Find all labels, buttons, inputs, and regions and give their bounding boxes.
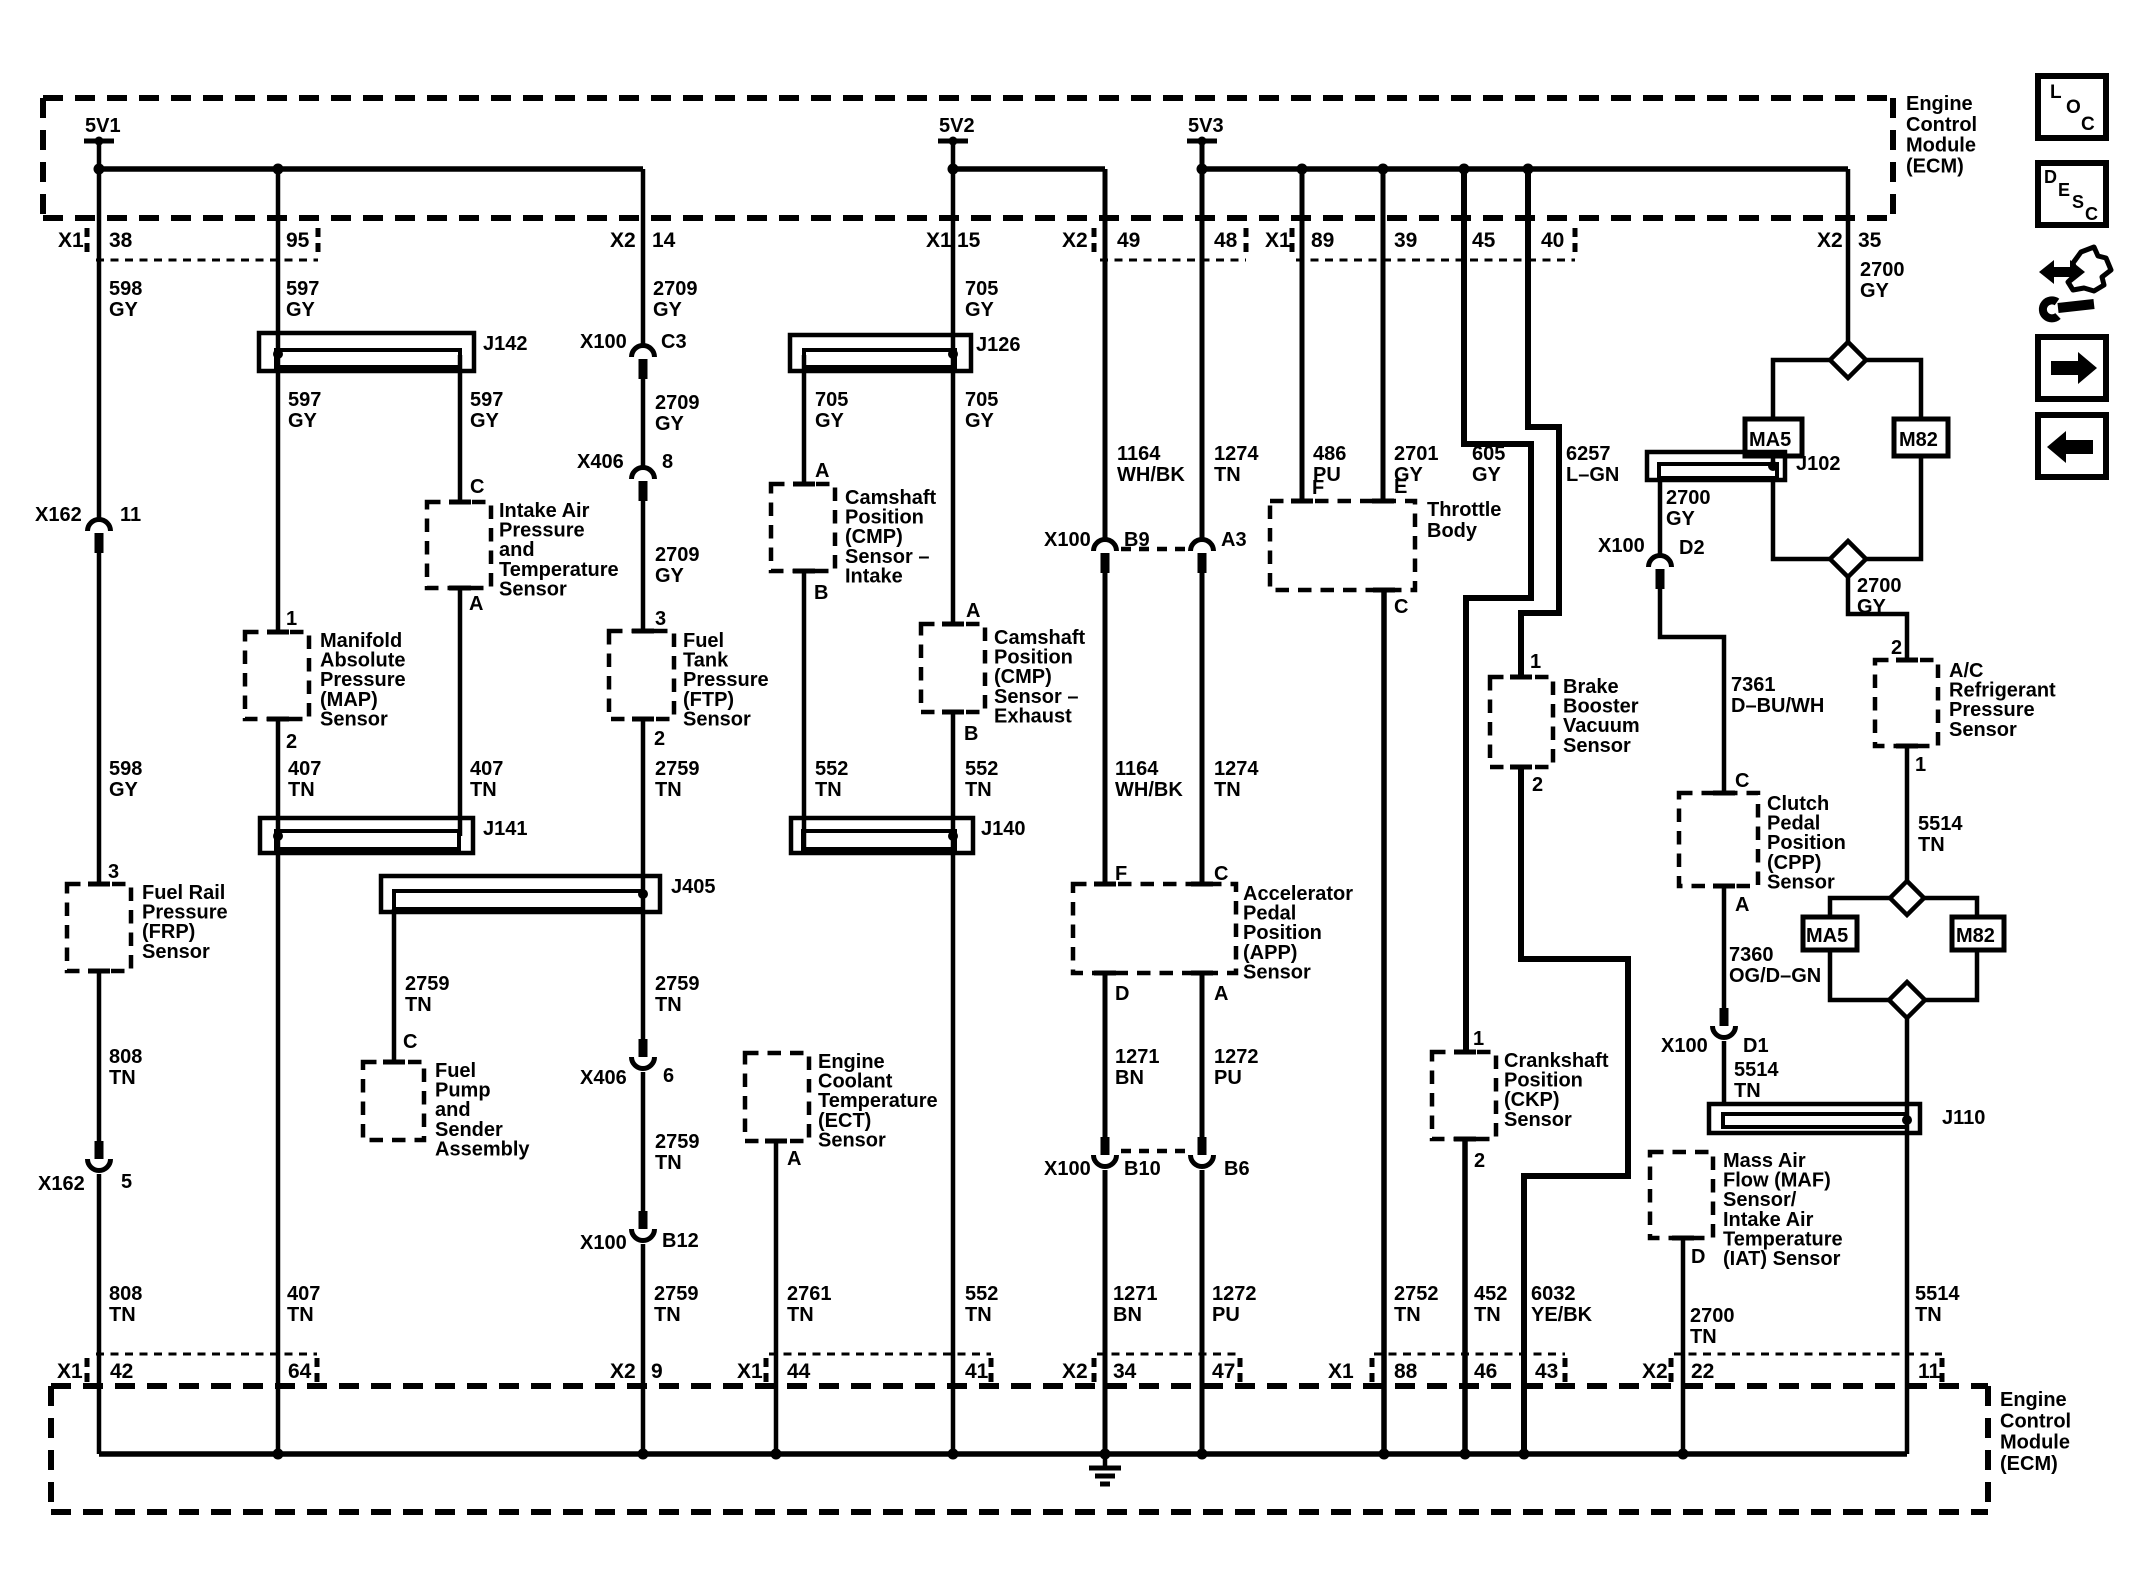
- label 6032 YE/BK: [1531, 1283, 1593, 1326]
- wire 598 GY X162-11 to FRP pin 3: [97, 553, 102, 884]
- svg-text:X100: X100: [580, 1232, 627, 1254]
- svg-text:O: O: [2066, 97, 2081, 118]
- svg-text:598: 598: [109, 758, 142, 780]
- svg-text:552: 552: [965, 1283, 998, 1305]
- label 1274 TN upper: [1214, 443, 1259, 486]
- wire splice 3 branch right to M82: [1924, 898, 1977, 917]
- svg-text:(IAT) Sensor: (IAT) Sensor: [1723, 1248, 1841, 1270]
- label 2761 TN: [787, 1283, 832, 1326]
- wire 552 TN CMP exhaust pin B through J140 to pin 41: [951, 712, 956, 1454]
- svg-text:5514: 5514: [1915, 1283, 1960, 1305]
- label 7361 D-BU/WH: [1731, 674, 1824, 717]
- splice diamond 3: [1890, 881, 1924, 915]
- wire 598 GY pin 38 to X162-11: [97, 141, 102, 518]
- svg-text:BN: BN: [1115, 1067, 1144, 1089]
- svg-text:6257: 6257: [1566, 443, 1611, 465]
- svg-text:GY: GY: [1860, 280, 1890, 302]
- splice diamond 4: [1889, 982, 1925, 1018]
- component Throttle Body: [1270, 499, 1501, 590]
- svg-text:X2: X2: [1817, 229, 1843, 252]
- label 2709 GY middle: [655, 392, 700, 435]
- svg-text:452: 452: [1474, 1283, 1507, 1305]
- wire 2709 GY X100-C3 to X406-8: [641, 379, 646, 466]
- label 2700 GY pin 35: [1860, 259, 1905, 302]
- wire M82 lower to splice diamond 4: [1925, 950, 1977, 1000]
- bottom connector row X1 (pins 42, 64): [57, 1354, 317, 1384]
- wire 2700 GY pin 35 to splice diamond: [1846, 169, 1851, 343]
- svg-text:E: E: [1394, 476, 1407, 498]
- label 452 TN: [1474, 1283, 1507, 1326]
- svg-text:1164: 1164: [1117, 443, 1161, 465]
- svg-text:E: E: [2058, 180, 2070, 200]
- tag MA5 lower: [1803, 917, 1857, 950]
- svg-text:M82: M82: [1956, 925, 1995, 947]
- label 1271 BN upper: [1115, 1046, 1160, 1089]
- svg-text:BN: BN: [1113, 1304, 1142, 1326]
- svg-text:35: 35: [1858, 229, 1882, 252]
- svg-text:L–GN: L–GN: [1566, 464, 1619, 486]
- wire 2759 TN FTP pin 2 through J405 to X406-6: [641, 719, 646, 1039]
- svg-text:5V1: 5V1: [85, 115, 121, 137]
- svg-text:407: 407: [470, 758, 503, 780]
- label 2759 TN below J405 left: [405, 973, 450, 1016]
- wire 6032 YE/BK BBV pin 2 to pin 43: [1521, 767, 1628, 1454]
- svg-text:5514: 5514: [1918, 813, 1963, 835]
- svg-text:38: 38: [109, 229, 133, 252]
- svg-text:D: D: [1691, 1246, 1705, 1268]
- label 7360 OG/D-GN: [1729, 944, 1821, 987]
- svg-text:34: 34: [1113, 1360, 1137, 1383]
- svg-text:2: 2: [1891, 637, 1902, 659]
- junction 5V3 bus dots: [1197, 164, 1534, 175]
- svg-text:2759: 2759: [654, 1283, 699, 1305]
- svg-text:1164: 1164: [1115, 758, 1159, 780]
- svg-text:D: D: [1115, 983, 1129, 1005]
- svg-text:WH/BK: WH/BK: [1115, 779, 1183, 801]
- svg-text:43: 43: [1535, 1360, 1558, 1383]
- svg-text:Sensor: Sensor: [1563, 735, 1631, 757]
- svg-text:GY: GY: [286, 299, 316, 321]
- icon box arrow left: [2038, 415, 2106, 477]
- svg-text:46: 46: [1474, 1360, 1497, 1383]
- svg-text:605: 605: [1472, 443, 1505, 465]
- ECM top label: [1906, 93, 1977, 177]
- svg-text:S: S: [2072, 192, 2084, 212]
- svg-text:1274: 1274: [1214, 443, 1259, 465]
- wire 1271 BN APP pin D to X100-B10: [1103, 973, 1108, 1137]
- svg-text:1274: 1274: [1214, 758, 1259, 780]
- svg-text:Body: Body: [1427, 520, 1478, 542]
- wire MA5 to J102: [1771, 456, 1776, 466]
- svg-text:D1: D1: [1743, 1035, 1769, 1057]
- svg-text:Sensor: Sensor: [499, 578, 567, 600]
- svg-text:B: B: [964, 723, 978, 745]
- svg-text:2709: 2709: [655, 544, 700, 566]
- svg-text:2: 2: [654, 728, 665, 750]
- junction J140 at col 953: [948, 831, 958, 841]
- svg-text:X1: X1: [1265, 229, 1291, 252]
- label 1164 WH/BK lower: [1115, 758, 1183, 801]
- svg-text:1272: 1272: [1214, 1046, 1259, 1068]
- splice pack J141: [260, 818, 528, 853]
- sensor FTP (Fuel Tank Pressure): [609, 630, 769, 730]
- svg-text:2759: 2759: [655, 758, 700, 780]
- svg-text:YE/BK: YE/BK: [1531, 1304, 1593, 1326]
- svg-text:TN: TN: [965, 1304, 992, 1326]
- splice diamond upper: [1830, 342, 1866, 378]
- wire 2752 TN Throttle Body pin C to pin 88: [1381, 590, 1387, 1454]
- svg-text:41: 41: [965, 1360, 989, 1383]
- svg-text:GY: GY: [965, 410, 995, 432]
- svg-text:597: 597: [470, 389, 503, 411]
- junction J110 at col 1907: [1902, 1115, 1912, 1125]
- svg-text:Sensor: Sensor: [1949, 719, 2017, 741]
- label 552 TN right: [965, 758, 998, 801]
- svg-text:TN: TN: [1214, 779, 1241, 801]
- svg-text:MA5: MA5: [1749, 429, 1791, 451]
- svg-text:GY: GY: [965, 299, 995, 321]
- ground symbol: [1089, 1454, 1121, 1484]
- label 6257 L-GN: [1566, 443, 1619, 486]
- connector X100 pin B6 in-line: [1191, 1137, 1250, 1180]
- svg-text:J142: J142: [483, 333, 528, 355]
- svg-text:2700: 2700: [1857, 575, 1902, 597]
- junction J405 at col 643: [638, 889, 648, 899]
- svg-text:1: 1: [1530, 651, 1541, 673]
- splice pack J126: [790, 334, 1021, 371]
- tag M82 upper: [1894, 419, 1948, 456]
- svg-text:3: 3: [108, 861, 119, 883]
- svg-text:11: 11: [120, 504, 141, 526]
- svg-text:Module: Module: [2000, 1432, 2070, 1454]
- svg-text:J102: J102: [1796, 453, 1841, 475]
- svg-text:X162: X162: [35, 504, 82, 526]
- svg-text:TN: TN: [654, 1304, 681, 1326]
- svg-text:5V3: 5V3: [1188, 115, 1224, 137]
- svg-text:X100: X100: [1661, 1035, 1708, 1057]
- svg-text:552: 552: [965, 758, 998, 780]
- sensor ECT (Engine Coolant Temperature): [745, 1051, 938, 1151]
- wire 2700 TN MAF pin D to pin 22: [1681, 1238, 1686, 1454]
- svg-text:M82: M82: [1899, 429, 1938, 451]
- svg-text:C: C: [1394, 596, 1408, 618]
- svg-text:Sensor: Sensor: [1504, 1109, 1572, 1131]
- label 407 TN col3: [470, 758, 503, 801]
- label 2759 TN below X406-6: [655, 1131, 700, 1174]
- wire J102 to splice diamond 2: [1773, 480, 1830, 559]
- wire 2759 TN J405 to Fuel Pump pin C: [392, 909, 397, 1062]
- label 2752 TN: [1394, 1283, 1439, 1326]
- svg-text:552: 552: [815, 758, 848, 780]
- top connector row X1 (pins 38, 95): [58, 228, 318, 260]
- svg-text:J405: J405: [671, 876, 716, 898]
- label 808 TN lower: [109, 1283, 142, 1326]
- svg-text:6032: 6032: [1531, 1283, 1576, 1305]
- label 2759 TN below J405 right: [655, 973, 700, 1016]
- wire 5V2 bus: [953, 166, 1105, 172]
- svg-text:Sensor: Sensor: [1767, 871, 1835, 893]
- splice pack J140: [791, 818, 1026, 853]
- junction 5V1 bus at col 99: [94, 164, 105, 175]
- svg-text:2700: 2700: [1860, 259, 1905, 281]
- svg-text:F: F: [1115, 863, 1127, 885]
- svg-text:2752: 2752: [1394, 1283, 1439, 1305]
- svg-text:TN: TN: [1394, 1304, 1421, 1326]
- svg-text:598: 598: [109, 278, 142, 300]
- svg-text:J110: J110: [1942, 1107, 1985, 1129]
- wire 5514 TN A/C pin 1 to splice diamond 3: [1905, 746, 1910, 882]
- label 1272 PU upper: [1214, 1046, 1259, 1089]
- connector X100 link B10-B6: [1121, 1149, 1186, 1154]
- svg-text:B6: B6: [1224, 1158, 1250, 1180]
- svg-text:597: 597: [288, 389, 321, 411]
- svg-text:15: 15: [957, 229, 981, 252]
- wire 5V1 bus: [99, 166, 643, 172]
- svg-text:8: 8: [662, 451, 673, 473]
- label 2700 GY below splice: [1857, 575, 1902, 618]
- wire 5514 TN X100-D1 to J110: [1722, 1041, 1727, 1104]
- connector X100 pin D1 in-line: [1661, 1008, 1769, 1057]
- wire 2700 GY J102 to X100-D2: [1658, 478, 1663, 554]
- svg-text:TN: TN: [655, 994, 682, 1016]
- svg-text:705: 705: [965, 389, 998, 411]
- wire 486 PU pin 89 to Throttle Body pin F: [1300, 169, 1305, 501]
- svg-text:Control: Control: [1906, 114, 1977, 136]
- sensor CPP (Clutch Pedal Position): [1679, 793, 1846, 893]
- svg-text:407: 407: [288, 758, 321, 780]
- svg-text:A: A: [1735, 894, 1749, 916]
- connector X100 pin B12 in-line: [580, 1211, 699, 1254]
- svg-text:GY: GY: [1472, 464, 1502, 486]
- svg-text:TN: TN: [109, 1304, 136, 1326]
- splice pack J102: [1647, 452, 1841, 480]
- svg-text:(ECM): (ECM): [1906, 155, 1964, 177]
- svg-text:PU: PU: [1212, 1304, 1240, 1326]
- svg-text:X162: X162: [38, 1173, 85, 1195]
- svg-text:40: 40: [1541, 229, 1564, 252]
- label 407 TN col2 lower: [287, 1283, 320, 1326]
- svg-text:Sensor: Sensor: [1243, 961, 1311, 983]
- svg-text:(ECM): (ECM): [2000, 1453, 2058, 1475]
- junction J142 at col 278: [273, 349, 283, 359]
- label 2709 GY upper: [653, 278, 698, 321]
- svg-text:Engine: Engine: [2000, 1389, 2067, 1411]
- svg-text:C: C: [2081, 114, 2095, 135]
- wire 407 TN MAP pin 2 through J141 to pin 64: [276, 719, 281, 1454]
- svg-text:OG/D–GN: OG/D–GN: [1729, 965, 1821, 987]
- power node 5V1: [84, 115, 121, 146]
- wire 1274 TN pin 48 to X100-A3: [1200, 141, 1205, 538]
- svg-text:1: 1: [1473, 1028, 1484, 1050]
- svg-text:X2: X2: [610, 229, 636, 252]
- label 2759 TN above J405: [655, 758, 700, 801]
- svg-text:95: 95: [286, 229, 310, 252]
- svg-text:Module: Module: [1906, 135, 1976, 157]
- connector X100 pin B9 in-line: [1044, 529, 1150, 573]
- connector X162 pin 11 in-line: [35, 504, 141, 553]
- sensor FRP (Fuel Rail Pressure): [67, 882, 228, 971]
- svg-text:11: 11: [1918, 1360, 1941, 1383]
- label 2701 GY: [1394, 443, 1439, 486]
- svg-text:TN: TN: [815, 779, 842, 801]
- svg-text:2761: 2761: [787, 1283, 832, 1305]
- label 486 PU: [1313, 443, 1346, 486]
- sensor CKP (Crankshaft Position): [1432, 1050, 1609, 1139]
- svg-text:B10: B10: [1124, 1158, 1161, 1180]
- sensor BBV (Brake Booster Vacuum): [1490, 676, 1640, 767]
- svg-text:5514: 5514: [1734, 1059, 1779, 1081]
- svg-text:J141: J141: [483, 818, 528, 840]
- svg-text:J126: J126: [976, 334, 1021, 356]
- wire 452 TN CKP pin 2 to pin 46: [1462, 1139, 1468, 1454]
- wire 407 TN Intake Air sensor pin A to J141: [458, 588, 463, 836]
- svg-text:808: 808: [109, 1046, 142, 1068]
- wire 2709 GY X406-8 to FTP pin 3: [641, 501, 646, 631]
- svg-text:808: 808: [109, 1283, 142, 1305]
- svg-text:Sensor: Sensor: [142, 941, 210, 963]
- bottom connector row X1 (pins 44, 41): [737, 1354, 991, 1384]
- wire ECM internal ground bus: [99, 1451, 1907, 1457]
- svg-text:5V2: 5V2: [939, 115, 975, 137]
- svg-text:WH/BK: WH/BK: [1117, 464, 1185, 486]
- svg-text:Sensor: Sensor: [683, 708, 751, 730]
- svg-text:X2: X2: [610, 1360, 636, 1383]
- label 1164 WH/BK upper: [1117, 443, 1185, 486]
- svg-text:TN: TN: [1918, 834, 1945, 856]
- svg-text:TN: TN: [655, 1152, 682, 1174]
- wire 597 GY pin 95 through J142 to MAP pin 1: [276, 169, 281, 632]
- wire M82 to splice diamond 2: [1866, 456, 1921, 559]
- tag M82 lower: [1952, 917, 2004, 950]
- svg-text:X1: X1: [58, 229, 84, 252]
- wire 1272 PU X100-B6 to pin 47: [1200, 1170, 1205, 1454]
- svg-text:2: 2: [286, 731, 297, 753]
- icon box arrow right: [2038, 337, 2106, 399]
- svg-text:1: 1: [1915, 754, 1926, 776]
- splice pack J110: [1709, 1104, 1985, 1133]
- sensor CMP exhaust (Camshaft Position): [921, 624, 1085, 727]
- label 552 TN bottom: [965, 1283, 998, 1326]
- svg-text:1: 1: [286, 608, 297, 630]
- svg-text:TN: TN: [470, 779, 497, 801]
- wire 2759 TN X406-6 to X100-B12: [641, 1072, 646, 1211]
- sensor Intake Air Pressure and Temperature: [427, 500, 619, 600]
- wire 2701 GY pin 39 to Throttle Body pin E: [1381, 169, 1386, 501]
- svg-text:B: B: [814, 582, 828, 604]
- connector X406 pin 6 in-line: [580, 1039, 674, 1089]
- label 705 GY below J126 left: [815, 389, 848, 432]
- svg-text:3: 3: [655, 608, 666, 630]
- svg-text:TN: TN: [405, 994, 432, 1016]
- wire 2761 TN ECT pin A to pin 44: [774, 1141, 779, 1454]
- icon repair (arrows and wrench): [2039, 247, 2111, 318]
- icon box LOC: [2038, 76, 2106, 138]
- svg-text:TN: TN: [288, 779, 315, 801]
- wire 2700 GY splice to A/C sensor pin 2: [1848, 577, 1907, 660]
- svg-text:PU: PU: [1214, 1067, 1242, 1089]
- svg-text:D2: D2: [1679, 537, 1705, 559]
- top connector row X2 (pins 49, 48): [1062, 228, 1246, 260]
- wire 705 GY pin 15 through J126 to CMP exhaust pin A: [951, 141, 956, 624]
- svg-text:X100: X100: [1598, 535, 1645, 557]
- component Fuel Pump and Sender Assembly: [363, 1060, 530, 1160]
- svg-text:1271: 1271: [1115, 1046, 1160, 1068]
- power node 5V2: [938, 115, 975, 146]
- svg-text:Exhaust: Exhaust: [994, 705, 1072, 727]
- label 597 GY upper: [286, 278, 319, 321]
- svg-text:A: A: [469, 593, 483, 615]
- svg-text:1272: 1272: [1212, 1283, 1257, 1305]
- svg-text:2701: 2701: [1394, 443, 1439, 465]
- svg-text:X1: X1: [926, 229, 952, 252]
- svg-text:GY: GY: [815, 410, 845, 432]
- svg-text:2: 2: [1474, 1150, 1485, 1172]
- wire 1272 PU APP pin A to X100-B6: [1200, 973, 1205, 1137]
- bottom connector row X2 (pins 34, 47): [1062, 1354, 1240, 1384]
- svg-text:A: A: [787, 1148, 801, 1170]
- svg-text:2: 2: [1532, 774, 1543, 796]
- wire splice 3 branch left to MA5: [1830, 898, 1890, 917]
- svg-text:TN: TN: [965, 779, 992, 801]
- sensor MAF/IAT (Mass Air Flow): [1650, 1150, 1843, 1270]
- label 407 TN col2 upper: [288, 758, 321, 801]
- label 1272 PU lower: [1212, 1283, 1257, 1326]
- wire 2709 GY pin 14 to X100-C3: [641, 169, 646, 344]
- svg-text:GY: GY: [288, 410, 318, 432]
- label 598 GY lower: [109, 758, 142, 801]
- connector X406 pin 8 in-line: [577, 451, 673, 501]
- svg-text:C: C: [470, 476, 484, 498]
- svg-text:GY: GY: [653, 299, 683, 321]
- connector X100 pin A3 in-line: [1191, 529, 1247, 573]
- svg-text:A: A: [1214, 983, 1228, 1005]
- power node 5V3: [1187, 115, 1224, 146]
- svg-text:6: 6: [663, 1065, 674, 1087]
- splice pack J142: [259, 333, 528, 371]
- wire 7360 OG/D-GN CPP pin A to X100-D1: [1722, 886, 1727, 1008]
- svg-text:Throttle: Throttle: [1427, 499, 1501, 521]
- wire 5514 TN splice 4 through J110 to pin 11: [1905, 1018, 1910, 1454]
- label 597 GY below J142 left: [288, 389, 321, 432]
- svg-text:X1: X1: [737, 1360, 763, 1383]
- connector X100 link B9-A3: [1121, 547, 1186, 552]
- bottom connector row X2 (pins 22, 11): [1642, 1354, 1942, 1384]
- svg-text:GY: GY: [109, 779, 139, 801]
- svg-text:MA5: MA5: [1806, 925, 1848, 947]
- wire 552 TN CMP intake pin B to J140: [802, 571, 807, 849]
- svg-text:GY: GY: [470, 410, 500, 432]
- wire 1164 WH/BK X100-B9 to APP pin F: [1103, 573, 1108, 884]
- label 2759 TN bottom: [654, 1283, 699, 1326]
- label 705 GY upper: [965, 278, 998, 321]
- svg-text:A3: A3: [1221, 529, 1247, 551]
- svg-text:X100: X100: [1044, 1158, 1091, 1180]
- svg-text:GY: GY: [655, 565, 685, 587]
- wire 605 GY pin 45 to CKP pin 1: [1464, 169, 1531, 1052]
- svg-text:44: 44: [787, 1360, 811, 1383]
- wire 1164 WH/BK pin 49 to X100-B9: [1103, 169, 1108, 538]
- svg-text:X2: X2: [1642, 1360, 1668, 1383]
- svg-text:GY: GY: [1857, 596, 1887, 618]
- svg-text:TN: TN: [287, 1304, 314, 1326]
- svg-text:2700: 2700: [1690, 1305, 1735, 1327]
- wire 2759 TN X100-B12 to pin 9: [641, 1244, 646, 1454]
- svg-text:GY: GY: [1666, 508, 1696, 530]
- svg-text:TN: TN: [1214, 464, 1241, 486]
- ECM top box (Engine Control Module): [43, 98, 1893, 218]
- wire splice branch left to MA5: [1773, 360, 1830, 419]
- label 705 GY below J126 right: [965, 389, 998, 432]
